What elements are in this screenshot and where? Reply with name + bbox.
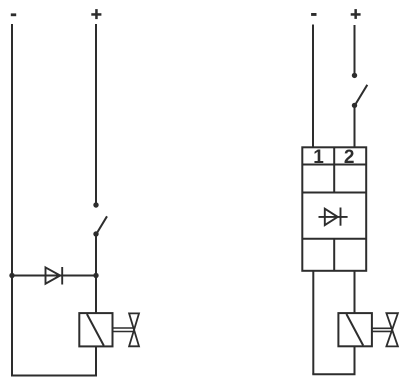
wire: diode branch horizontal (12, 275, 96, 277)
solenoid coil Y2 body (338, 313, 372, 346)
terminal block vertical divider lower (333, 239, 335, 271)
label minus (right supply) (311, 13, 316, 16)
actuator link double line (left valve) (113, 327, 134, 329)
valve bowtie (left) (129, 313, 139, 346)
wire: from switch down to diode junction (95, 234, 97, 276)
terminal block outer body (302, 147, 366, 270)
switch S2 blade (355, 85, 368, 106)
switch S1 moving contact node (93, 231, 98, 236)
label plus (right supply) (351, 9, 361, 19)
terminal block divider row2/row3 (302, 192, 366, 194)
diode V1 triangle (46, 267, 61, 283)
solenoid coil Y2 diagonal (346, 314, 363, 346)
wire: right positive rail vertical upper (354, 25, 356, 75)
label plus (left supply) (91, 9, 101, 19)
wire: right negative rail vertical to terminal 1 (312, 25, 314, 148)
wire: right circuit bottom return horizontal (312, 373, 355, 375)
diode V2 lead line (319, 216, 348, 218)
svg-text:1: 1 (313, 147, 324, 168)
switch S1 fixed contact node (93, 202, 98, 207)
diode V2 cathode bar (340, 208, 342, 226)
svg-text:2: 2 (344, 147, 355, 168)
switch S2 moving contact node (352, 103, 357, 108)
terminal block divider row3/row4 (302, 238, 366, 240)
wire: left circuit bottom return horizontal (11, 375, 97, 377)
wire: from diode junction down to solenoid coil (95, 276, 97, 314)
wire: solenoid coil Y2 to bottom return (354, 346, 356, 374)
wire: terminal 2 bottom down to solenoid coil (354, 271, 356, 313)
actuator link double line (right valve) (372, 327, 392, 329)
wire: solenoid coil to bottom return (95, 346, 97, 375)
terminal block divider row1/row2 (302, 164, 366, 166)
diode V2 triangle (325, 209, 338, 225)
wire: left positive rail vertical upper (95, 24, 97, 205)
switch S2 fixed contact node (352, 73, 357, 78)
wire: terminal 1 bottom down to return (312, 271, 314, 375)
terminal block vertical divider upper (333, 147, 335, 192)
wire: left negative rail vertical (11, 24, 13, 376)
valve bowtie (right) (386, 313, 398, 346)
diode V1 cathode bar (61, 267, 63, 285)
node: diode left junction (9, 273, 14, 278)
solenoid coil Y1 diagonal (87, 314, 104, 346)
node: diode right junction (93, 273, 98, 278)
solenoid coil Y1 body (79, 313, 112, 346)
switch S1 blade (96, 216, 107, 234)
label minus (left supply) (11, 13, 16, 16)
wire: switch to terminal 2 (354, 105, 356, 147)
